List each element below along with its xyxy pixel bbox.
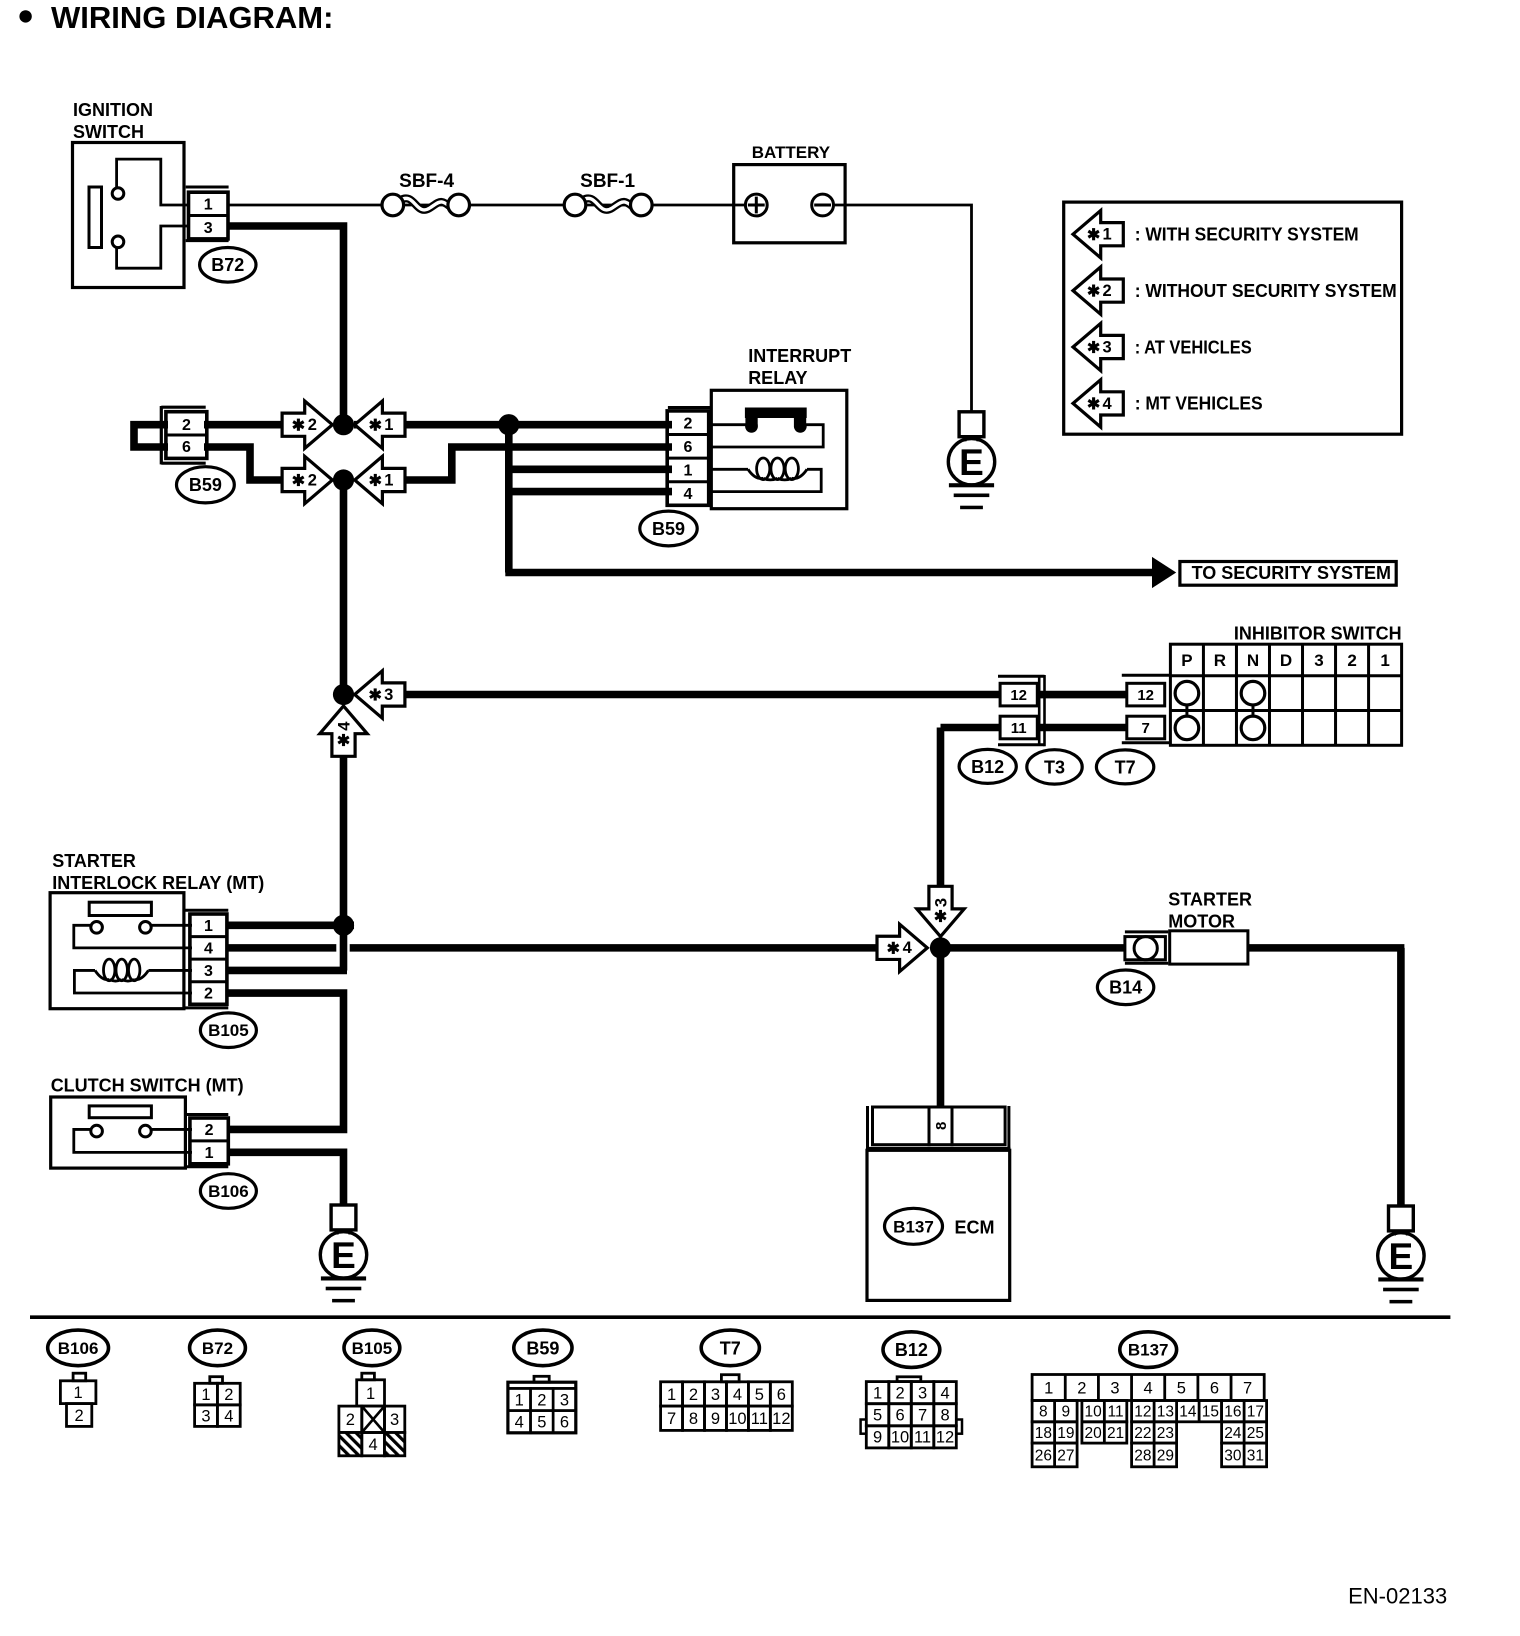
svg-text:4: 4	[1144, 1379, 1153, 1397]
svg-text:3: 3	[711, 1386, 720, 1404]
svg-text:4: 4	[515, 1414, 524, 1432]
svg-text:17: 17	[1247, 1404, 1264, 1421]
svg-text:12: 12	[772, 1410, 790, 1428]
svg-text:2: 2	[346, 1411, 355, 1429]
svg-text:B12: B12	[895, 1340, 928, 1360]
svg-text:2: 2	[224, 1386, 233, 1404]
svg-text:STARTER: STARTER	[52, 851, 136, 871]
svg-text:3: 3	[390, 1411, 399, 1429]
svg-text:10: 10	[1085, 1404, 1103, 1421]
svg-text:T3: T3	[1044, 757, 1065, 777]
svg-text:8: 8	[933, 1122, 950, 1130]
svg-text:1: 1	[384, 471, 393, 489]
svg-text:INTERLOCK RELAY (MT): INTERLOCK RELAY (MT)	[52, 873, 264, 893]
svg-text:6: 6	[895, 1407, 904, 1425]
svg-text:B137: B137	[893, 1217, 934, 1236]
svg-text:1: 1	[204, 918, 213, 935]
svg-text:27: 27	[1057, 1447, 1074, 1464]
svg-text:2: 2	[689, 1386, 698, 1404]
svg-text:22: 22	[1134, 1425, 1151, 1442]
svg-text:IGNITION: IGNITION	[73, 100, 153, 120]
svg-text:16: 16	[1224, 1404, 1241, 1421]
svg-text:1: 1	[515, 1391, 524, 1409]
svg-text:3: 3	[1314, 651, 1323, 670]
svg-text:1: 1	[1380, 651, 1389, 670]
svg-text:R: R	[1214, 651, 1226, 670]
svg-text:5: 5	[537, 1414, 546, 1432]
svg-text:: MT VEHICLES: : MT VEHICLES	[1135, 394, 1263, 414]
svg-text:SBF-4: SBF-4	[399, 171, 454, 192]
svg-text:11: 11	[914, 1429, 931, 1447]
svg-text:19: 19	[1057, 1425, 1074, 1442]
svg-text:2: 2	[1103, 282, 1112, 300]
svg-text:D: D	[1280, 651, 1292, 670]
svg-text:3: 3	[201, 1407, 210, 1425]
svg-text:4: 4	[1103, 395, 1113, 413]
svg-text:STARTER: STARTER	[1168, 890, 1252, 910]
svg-text:B105: B105	[352, 1339, 393, 1358]
svg-text:4: 4	[369, 1436, 378, 1454]
svg-text:T7: T7	[1115, 757, 1136, 777]
svg-text:: WITHOUT SECURITY SYSTEM: : WITHOUT SECURITY SYSTEM	[1135, 281, 1397, 301]
svg-text:B72: B72	[202, 1339, 233, 1358]
svg-text:P: P	[1181, 651, 1192, 670]
svg-text:3: 3	[560, 1391, 569, 1409]
svg-text:21: 21	[1107, 1425, 1124, 1442]
svg-text:4: 4	[940, 1385, 949, 1403]
svg-text:3: 3	[1103, 338, 1112, 356]
svg-text:: AT VEHICLES: : AT VEHICLES	[1135, 337, 1252, 357]
svg-text:7: 7	[1243, 1379, 1252, 1397]
svg-text:T7: T7	[720, 1338, 741, 1358]
svg-text:10: 10	[891, 1429, 909, 1447]
svg-text:8: 8	[1039, 1404, 1048, 1421]
svg-text:25: 25	[1247, 1425, 1264, 1442]
svg-text:EN-02133: EN-02133	[1348, 1584, 1447, 1609]
svg-text:2: 2	[895, 1385, 904, 1403]
svg-text:INTERRUPT: INTERRUPT	[748, 346, 851, 366]
svg-text:1: 1	[205, 1145, 214, 1162]
svg-text:2: 2	[308, 471, 317, 489]
svg-text:5: 5	[873, 1407, 882, 1425]
svg-text:3: 3	[932, 898, 950, 907]
svg-text:11: 11	[751, 1410, 768, 1428]
svg-text:WIRING DIAGRAM:: WIRING DIAGRAM:	[51, 0, 333, 35]
svg-text:BATTERY: BATTERY	[752, 143, 831, 162]
svg-text:E: E	[1389, 1236, 1414, 1277]
svg-text:1: 1	[74, 1384, 83, 1402]
svg-text:B59: B59	[189, 475, 222, 495]
svg-text:26: 26	[1035, 1447, 1052, 1464]
svg-text:1: 1	[1103, 226, 1112, 244]
svg-text:6: 6	[1210, 1379, 1219, 1397]
svg-text:4: 4	[224, 1407, 233, 1425]
svg-text:8: 8	[689, 1410, 698, 1428]
svg-text:23: 23	[1157, 1425, 1174, 1442]
svg-text:24: 24	[1224, 1425, 1242, 1442]
svg-text:1: 1	[366, 1385, 375, 1403]
svg-text:2: 2	[205, 1122, 214, 1139]
svg-text:4: 4	[903, 939, 913, 957]
svg-text:N: N	[1247, 651, 1259, 670]
svg-text:3: 3	[204, 963, 213, 980]
svg-text:ECM: ECM	[955, 1218, 995, 1238]
svg-text:12: 12	[1010, 687, 1027, 704]
svg-text:2: 2	[683, 415, 692, 432]
svg-text:12: 12	[936, 1429, 954, 1447]
svg-text:2: 2	[537, 1391, 546, 1409]
svg-text:5: 5	[1177, 1379, 1186, 1397]
svg-text:28: 28	[1134, 1447, 1151, 1464]
svg-text:7: 7	[1142, 720, 1150, 737]
svg-text:2: 2	[182, 417, 191, 434]
svg-text:20: 20	[1085, 1425, 1103, 1442]
svg-text:10: 10	[728, 1410, 746, 1428]
svg-text:B12: B12	[971, 757, 1004, 777]
svg-text:3: 3	[918, 1385, 927, 1403]
svg-text:2: 2	[204, 986, 213, 1003]
svg-text:MOTOR: MOTOR	[1168, 912, 1235, 932]
svg-text:5: 5	[755, 1386, 764, 1404]
svg-text:6: 6	[182, 439, 191, 456]
svg-text:4: 4	[335, 721, 353, 731]
svg-text:7: 7	[667, 1410, 676, 1428]
svg-text:E: E	[959, 442, 984, 483]
svg-text:B106: B106	[208, 1182, 249, 1201]
svg-text:3: 3	[1110, 1379, 1119, 1397]
svg-text:31: 31	[1247, 1447, 1264, 1464]
svg-text:1: 1	[384, 416, 393, 434]
svg-text:15: 15	[1202, 1404, 1219, 1421]
svg-text:1: 1	[667, 1386, 676, 1404]
svg-text:B59: B59	[652, 519, 685, 539]
svg-text:14: 14	[1179, 1404, 1197, 1421]
svg-text:18: 18	[1035, 1425, 1052, 1442]
svg-text:B14: B14	[1109, 978, 1142, 998]
svg-text:B105: B105	[208, 1021, 249, 1040]
svg-text:6: 6	[683, 439, 692, 456]
svg-text:CLUTCH SWITCH (MT): CLUTCH SWITCH (MT)	[51, 1076, 244, 1096]
svg-text:2: 2	[1347, 651, 1356, 670]
svg-text:RELAY: RELAY	[748, 368, 807, 388]
svg-text:SWITCH: SWITCH	[73, 122, 144, 142]
svg-text:1: 1	[201, 1386, 210, 1404]
svg-text:12: 12	[1134, 1404, 1151, 1421]
svg-text:2: 2	[1077, 1379, 1086, 1397]
svg-text:2: 2	[308, 416, 317, 434]
svg-text:B59: B59	[526, 1338, 559, 1358]
svg-text:12: 12	[1137, 687, 1154, 704]
svg-text:E: E	[331, 1235, 356, 1276]
svg-text:: WITH SECURITY SYSTEM: : WITH SECURITY SYSTEM	[1135, 225, 1359, 245]
svg-text:B72: B72	[211, 255, 244, 275]
svg-text:4: 4	[733, 1386, 742, 1404]
svg-text:7: 7	[918, 1407, 927, 1425]
svg-text:B106: B106	[58, 1339, 99, 1358]
svg-text:INHIBITOR SWITCH: INHIBITOR SWITCH	[1234, 623, 1402, 643]
svg-text:6: 6	[560, 1414, 569, 1432]
svg-text:2: 2	[75, 1407, 84, 1425]
svg-text:9: 9	[873, 1429, 882, 1447]
svg-text:3: 3	[204, 220, 213, 237]
svg-text:11: 11	[1108, 1404, 1124, 1421]
svg-text:6: 6	[777, 1386, 786, 1404]
svg-text:13: 13	[1157, 1404, 1174, 1421]
svg-text:4: 4	[204, 941, 213, 958]
svg-text:SBF-1: SBF-1	[580, 171, 635, 192]
svg-text:TO SECURITY SYSTEM: TO SECURITY SYSTEM	[1192, 563, 1391, 583]
svg-text:30: 30	[1224, 1447, 1242, 1464]
svg-text:9: 9	[711, 1410, 720, 1428]
svg-text:B137: B137	[1128, 1341, 1169, 1360]
svg-text:3: 3	[384, 686, 393, 704]
svg-text:29: 29	[1157, 1447, 1174, 1464]
svg-text:11: 11	[1011, 720, 1027, 737]
svg-text:1: 1	[204, 197, 213, 214]
svg-text:4: 4	[683, 486, 692, 503]
svg-text:1: 1	[873, 1385, 882, 1403]
svg-text:9: 9	[1062, 1404, 1071, 1421]
svg-text:1: 1	[1044, 1379, 1053, 1397]
svg-text:1: 1	[683, 463, 692, 480]
svg-text:8: 8	[940, 1407, 949, 1425]
